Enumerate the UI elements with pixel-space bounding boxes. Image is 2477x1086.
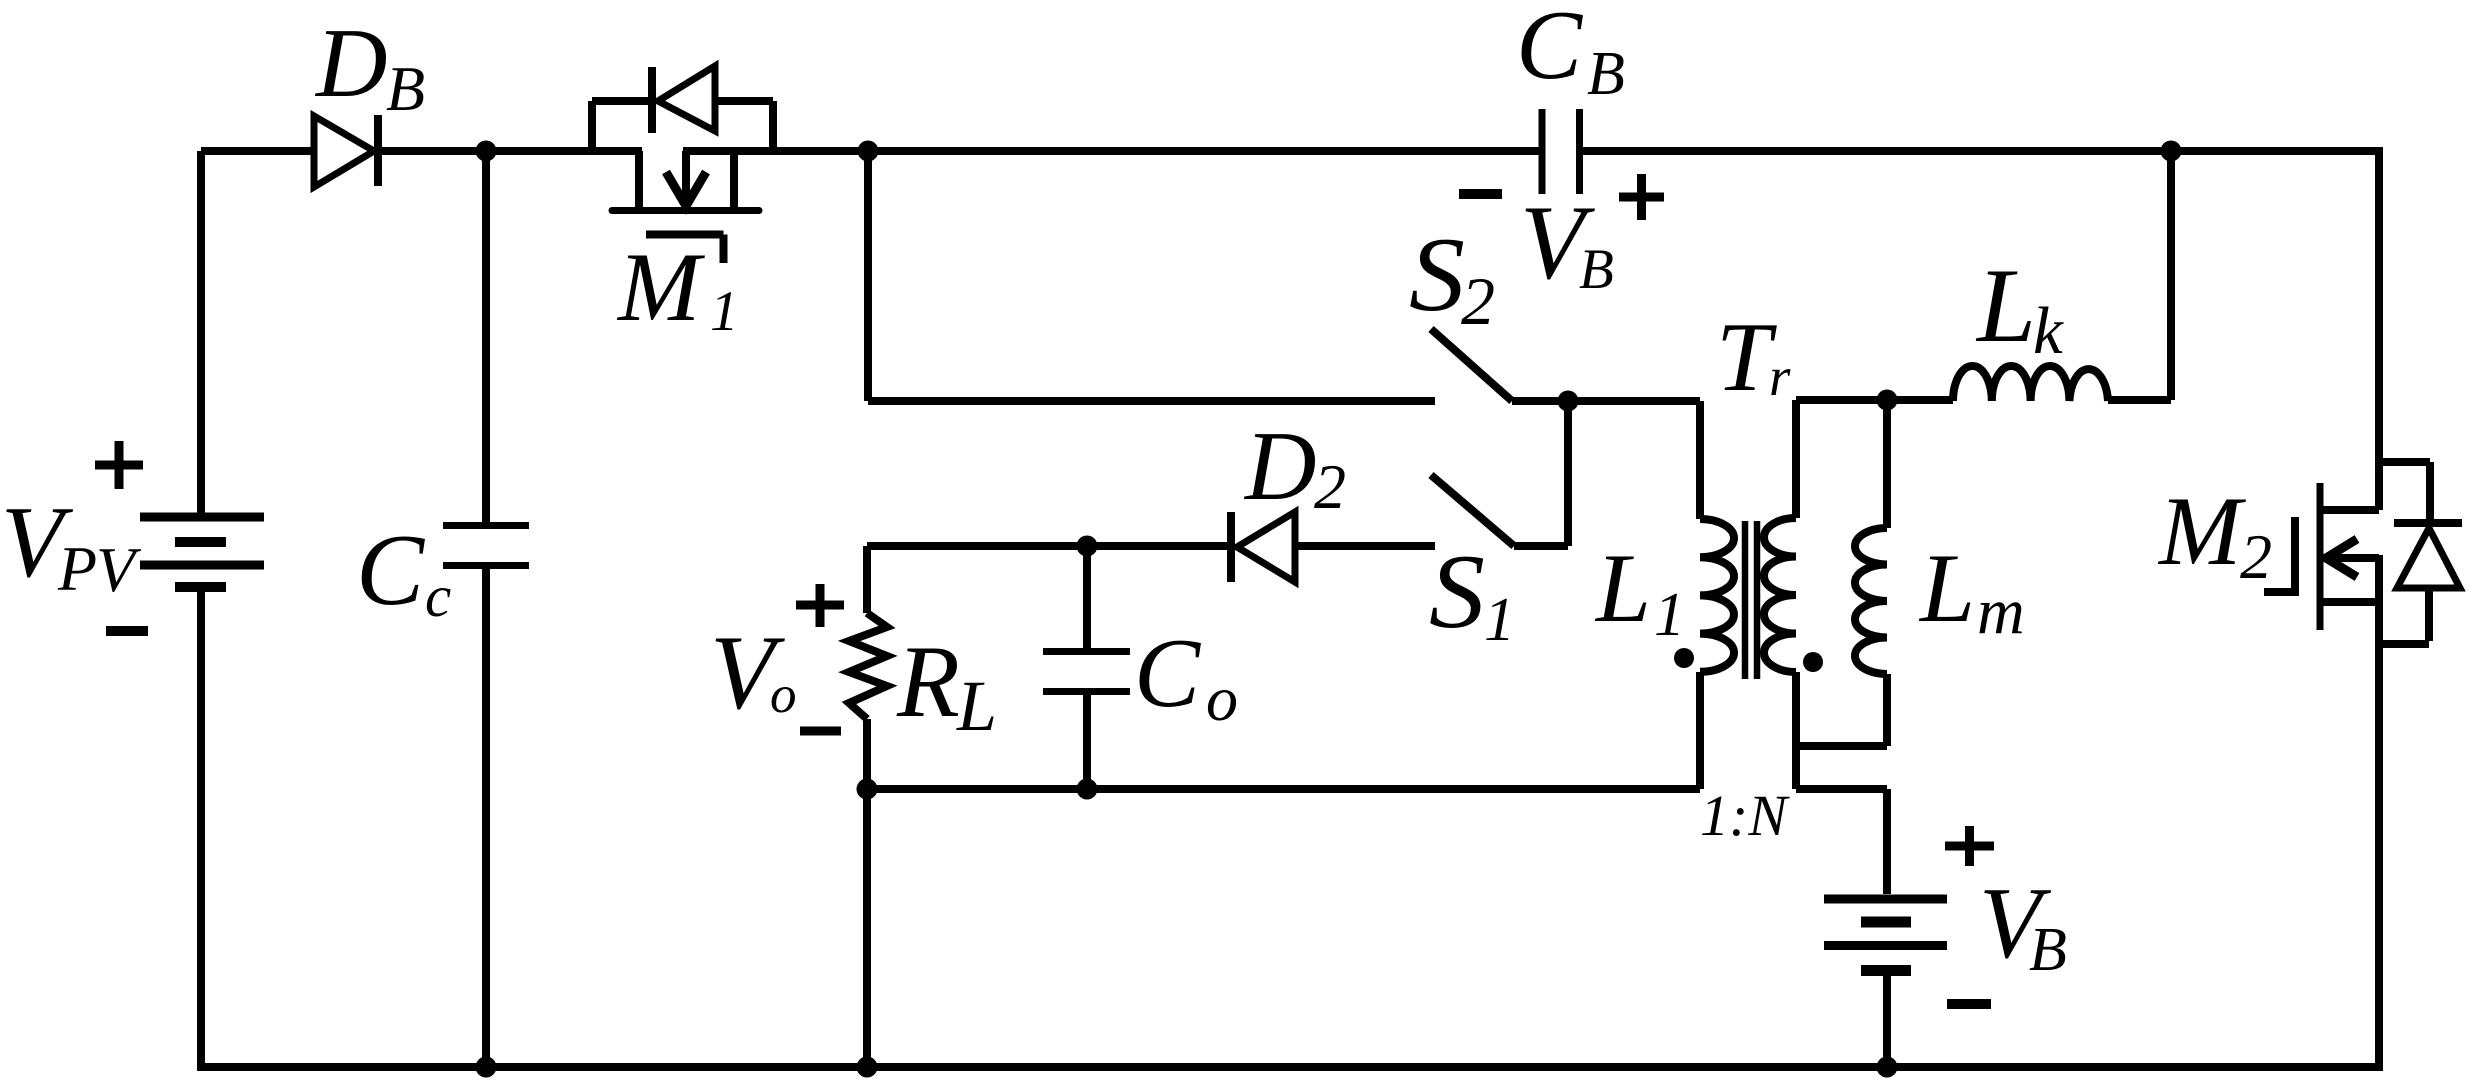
svg-text:M: M — [616, 233, 706, 342]
svg-text:m: m — [1977, 575, 2025, 648]
svg-text:L: L — [1975, 247, 2036, 364]
svg-text:L: L — [956, 666, 997, 746]
svg-text:o: o — [770, 666, 797, 724]
svg-text:1:N: 1:N — [1700, 783, 1790, 848]
svg-text:2: 2 — [1461, 263, 1495, 339]
svg-text:S: S — [1409, 216, 1465, 333]
svg-text:L: L — [1918, 534, 1975, 643]
svg-text:P: P — [57, 533, 97, 604]
svg-text:c: c — [425, 563, 451, 629]
svg-text:B: B — [1579, 238, 1614, 301]
svg-text:2: 2 — [2240, 521, 2272, 592]
svg-text:r: r — [1769, 346, 1791, 407]
svg-text:L: L — [1594, 534, 1651, 643]
svg-text:B: B — [2029, 916, 2067, 984]
svg-text:D: D — [1243, 412, 1317, 521]
svg-text:B: B — [1587, 40, 1625, 108]
svg-text:1: 1 — [1654, 581, 1685, 649]
svg-text:C: C — [1516, 0, 1583, 100]
svg-text:1: 1 — [1484, 586, 1515, 654]
svg-text:S: S — [1429, 533, 1485, 650]
svg-text:k: k — [2033, 294, 2064, 368]
svg-text:C: C — [1134, 619, 1201, 728]
svg-text:1: 1 — [710, 280, 739, 343]
svg-text:B: B — [386, 53, 425, 124]
svg-text:R: R — [896, 625, 960, 739]
svg-text:2: 2 — [1314, 451, 1346, 522]
svg-text:D: D — [314, 9, 388, 118]
svg-text:C: C — [356, 514, 425, 627]
svg-text:T: T — [1716, 303, 1777, 412]
svg-text:M: M — [2157, 477, 2247, 586]
svg-text:o: o — [1206, 663, 1238, 734]
svg-text:V: V — [96, 534, 142, 605]
